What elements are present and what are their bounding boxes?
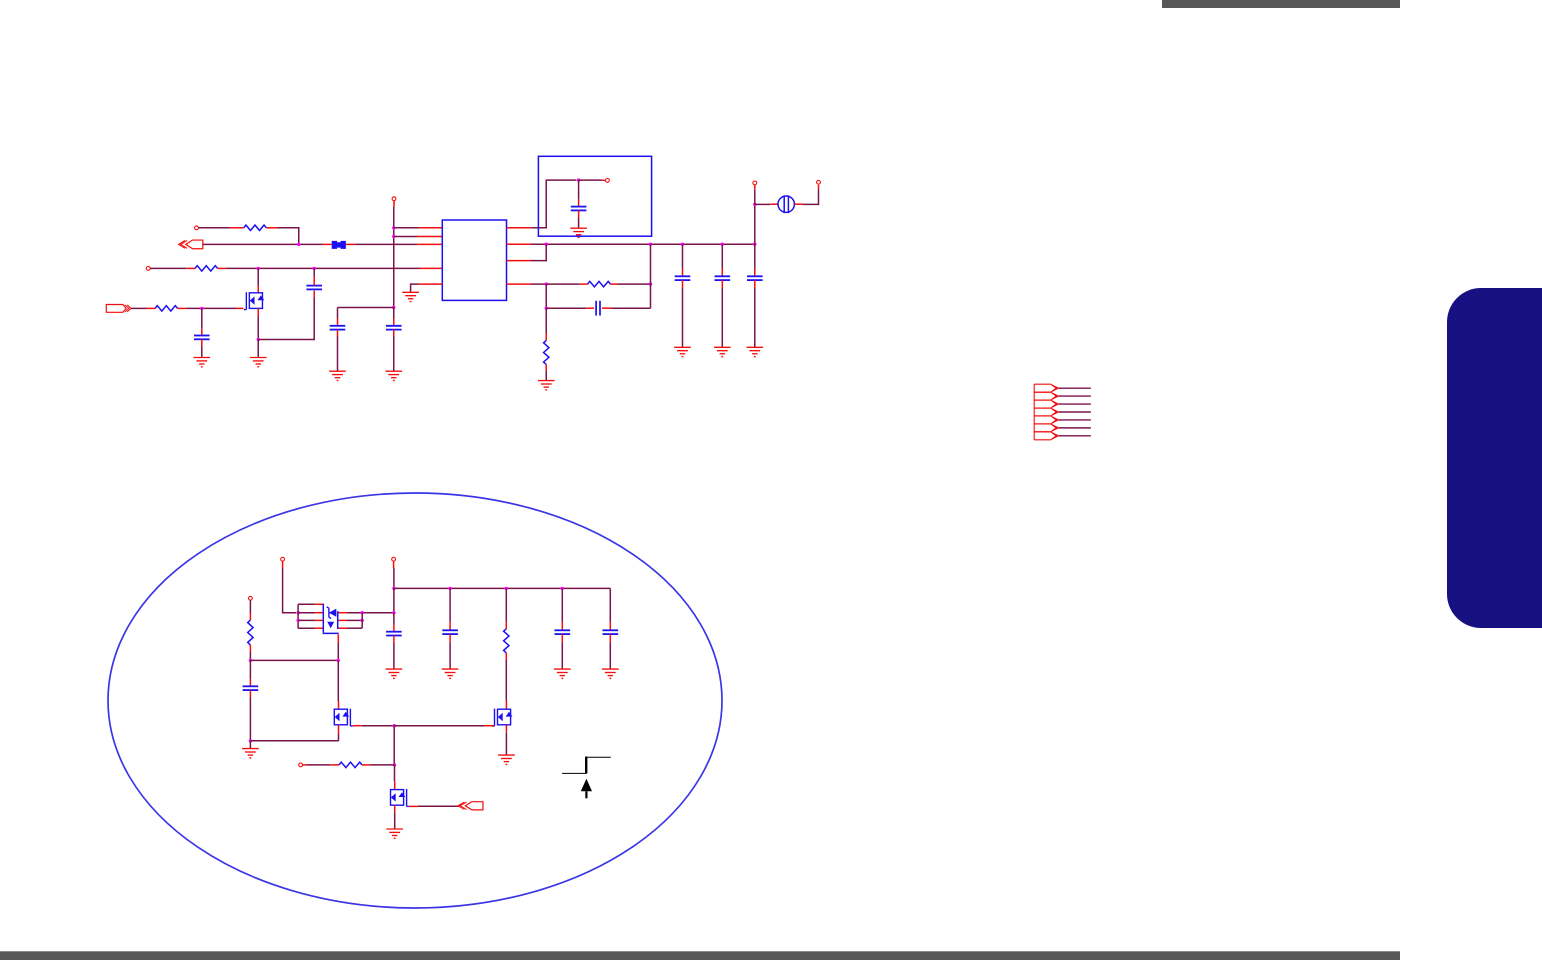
wire <box>1059 435 1091 437</box>
wire <box>393 561 395 568</box>
wire <box>258 298 314 340</box>
wire <box>505 725 507 733</box>
capacitor <box>555 630 571 634</box>
junction <box>361 611 364 614</box>
wire <box>795 203 804 205</box>
wire <box>203 243 323 245</box>
wire <box>355 243 417 245</box>
wire <box>362 725 394 727</box>
ground <box>386 829 403 838</box>
wire <box>249 741 251 749</box>
wire <box>754 204 756 244</box>
terminal <box>299 763 303 767</box>
wire <box>721 280 723 288</box>
wire <box>347 627 362 629</box>
ground <box>570 228 587 237</box>
wire <box>545 365 547 371</box>
junction <box>392 611 395 614</box>
transistor Q1 <box>244 292 263 309</box>
wire <box>337 337 339 372</box>
wire <box>449 588 451 622</box>
wire <box>418 805 460 807</box>
wire <box>266 227 277 229</box>
wire <box>449 634 451 642</box>
wire <box>297 604 299 628</box>
junction <box>721 243 724 246</box>
terminal <box>606 179 610 183</box>
wire <box>393 613 395 625</box>
wire <box>611 283 618 285</box>
ground <box>385 371 402 380</box>
fuse F1 <box>332 241 346 249</box>
wire <box>754 244 756 268</box>
wire <box>721 244 723 268</box>
wire <box>419 283 443 285</box>
wire <box>682 288 684 347</box>
wire <box>393 308 395 319</box>
ground <box>602 669 619 678</box>
wire <box>586 307 594 309</box>
wire <box>1059 419 1091 421</box>
junction <box>681 243 684 246</box>
ground <box>386 669 403 678</box>
junction <box>392 587 395 590</box>
diode D2 <box>329 609 336 617</box>
edge trigger symbol <box>562 756 611 774</box>
resistor R2 <box>195 266 218 271</box>
wire <box>249 698 251 741</box>
wire <box>721 269 723 277</box>
wire <box>561 642 563 669</box>
wire <box>278 228 299 245</box>
capacitor C7 <box>243 686 259 690</box>
junction <box>257 338 260 341</box>
wire <box>507 243 532 245</box>
capacitor C8 <box>386 632 402 636</box>
capacitor <box>675 276 691 280</box>
wire <box>611 307 650 309</box>
wire <box>393 330 395 337</box>
wire <box>393 337 395 372</box>
wire <box>298 619 315 621</box>
bottom footer bar <box>0 951 1400 960</box>
wire <box>249 679 251 686</box>
wire <box>218 267 227 269</box>
wire <box>721 288 723 347</box>
wire <box>1059 395 1091 397</box>
wire <box>303 764 307 766</box>
wire <box>315 612 323 614</box>
wire <box>754 280 756 288</box>
wire <box>409 805 418 807</box>
wire <box>394 805 396 812</box>
wire <box>250 659 338 661</box>
ground <box>674 347 691 356</box>
wire <box>754 288 756 347</box>
wire <box>578 200 580 207</box>
wire <box>507 227 532 229</box>
wire <box>449 642 451 669</box>
wire <box>362 764 370 766</box>
terminal <box>281 557 285 561</box>
wire <box>201 339 203 346</box>
regulator IC U1 <box>442 220 506 300</box>
capacitor C5 <box>571 207 587 211</box>
filter L1 <box>778 195 794 213</box>
wire <box>1059 403 1091 405</box>
capacitor C1 <box>194 336 210 340</box>
wire <box>1059 427 1091 429</box>
junction <box>249 739 252 742</box>
wire <box>507 260 532 262</box>
wire <box>609 634 611 642</box>
resistor R4 <box>588 281 611 286</box>
junction <box>393 724 396 727</box>
wire <box>257 340 259 358</box>
wire <box>505 660 507 701</box>
wire <box>393 319 395 326</box>
wire <box>347 612 394 614</box>
wire <box>546 283 580 285</box>
wire <box>313 268 315 276</box>
wire <box>393 726 395 765</box>
resistor R7 <box>504 629 509 653</box>
wire <box>531 283 546 285</box>
wire <box>545 284 547 308</box>
capacitor <box>715 276 731 280</box>
output port <box>106 305 126 313</box>
junction <box>448 587 451 590</box>
pack mosfet arrow <box>327 622 334 629</box>
wire <box>505 733 507 755</box>
junction <box>753 203 756 206</box>
wire <box>337 660 339 701</box>
wire <box>249 645 251 652</box>
wire <box>249 600 251 613</box>
wire <box>561 588 563 622</box>
wire <box>394 725 484 727</box>
input port <box>186 240 203 249</box>
wire <box>419 227 443 229</box>
wire <box>545 333 547 340</box>
wire <box>338 627 347 629</box>
wire <box>578 218 580 229</box>
wire <box>394 587 610 589</box>
wire <box>337 634 339 643</box>
wire <box>315 627 323 629</box>
wire <box>754 269 756 277</box>
wire <box>226 267 419 269</box>
wire <box>257 268 259 285</box>
wire <box>313 291 315 298</box>
wire <box>201 308 203 328</box>
junction <box>649 243 652 246</box>
junction <box>545 282 548 285</box>
wire <box>579 179 603 181</box>
wire <box>338 734 340 741</box>
wire <box>682 269 684 277</box>
junction <box>505 587 508 590</box>
wire <box>393 568 395 588</box>
junction <box>649 282 652 285</box>
ground <box>242 749 259 758</box>
wire <box>315 603 323 605</box>
ground <box>714 347 731 356</box>
wire <box>754 185 756 189</box>
wire <box>257 308 259 316</box>
wire <box>803 189 819 204</box>
wire <box>337 643 339 660</box>
wire <box>393 643 395 669</box>
wire <box>580 283 588 285</box>
wire <box>505 588 507 621</box>
wire <box>618 283 651 285</box>
wire <box>505 701 507 709</box>
wire <box>257 317 259 340</box>
transistor Q4 <box>391 789 410 806</box>
ground <box>329 371 346 380</box>
wire <box>338 307 394 309</box>
junction <box>361 619 364 622</box>
wire <box>682 280 684 288</box>
input port <box>465 802 483 810</box>
wire <box>754 189 756 204</box>
wire <box>236 307 244 309</box>
capacitor C4 <box>386 326 402 330</box>
junction <box>297 243 300 246</box>
wire <box>393 625 395 632</box>
junction <box>337 659 340 662</box>
junction <box>392 235 395 238</box>
junction <box>392 226 395 229</box>
wire <box>370 764 394 766</box>
ground <box>747 347 764 356</box>
resistor R3 <box>155 306 177 311</box>
terminal <box>753 181 757 185</box>
ground <box>250 358 267 367</box>
wire <box>146 307 155 309</box>
wire <box>338 701 340 709</box>
wire <box>411 284 419 292</box>
wire <box>505 653 507 660</box>
wire <box>249 690 251 697</box>
wire <box>420 267 443 269</box>
wire <box>545 308 547 333</box>
wire <box>298 603 315 605</box>
junction <box>577 178 580 181</box>
ground <box>442 669 459 678</box>
wire <box>186 267 195 269</box>
wire <box>199 227 231 229</box>
wire <box>178 307 187 309</box>
wire <box>307 764 331 766</box>
wire <box>394 781 396 789</box>
wire <box>505 622 507 629</box>
ground <box>554 669 571 678</box>
wire <box>546 307 586 309</box>
ground <box>538 381 555 390</box>
wire <box>609 622 611 630</box>
junction <box>561 587 564 590</box>
wire <box>131 307 146 309</box>
wire <box>315 619 323 621</box>
wire <box>353 725 362 727</box>
highlight ellipse <box>108 493 722 908</box>
wire <box>283 568 296 613</box>
wire <box>578 210 580 217</box>
wire <box>531 180 576 228</box>
terminal <box>195 226 199 230</box>
wire <box>257 286 259 293</box>
resistor R5 <box>544 340 549 364</box>
dual pack Q5 outline <box>323 604 339 634</box>
wire <box>602 307 611 309</box>
wire <box>545 371 547 381</box>
junction <box>545 307 548 310</box>
resistor R6 <box>248 620 253 645</box>
top header bar <box>1162 0 1400 8</box>
terminal <box>392 197 396 201</box>
wire <box>484 725 494 727</box>
wire <box>1059 411 1091 413</box>
wire <box>394 236 417 238</box>
wire <box>361 613 363 629</box>
resistor R1 <box>244 225 267 230</box>
wire <box>561 634 563 642</box>
ground <box>194 358 211 367</box>
junction <box>393 763 396 766</box>
ground <box>402 292 419 301</box>
wire <box>347 619 362 621</box>
wire <box>755 203 770 205</box>
ground <box>498 755 515 764</box>
wire <box>298 612 315 614</box>
capacitor C2 <box>306 286 322 290</box>
wire <box>393 636 395 644</box>
resistor R8 <box>339 762 362 767</box>
wire <box>1059 387 1091 389</box>
wire <box>230 227 244 229</box>
feedback box <box>538 156 651 236</box>
wire <box>150 267 186 269</box>
junction <box>257 267 260 270</box>
wire <box>417 236 442 238</box>
wire <box>449 622 451 630</box>
junction <box>200 307 203 310</box>
wire <box>338 612 347 614</box>
wire <box>609 642 611 669</box>
wire <box>394 227 419 229</box>
capacitor <box>747 276 763 280</box>
wire <box>507 283 532 285</box>
chapter side tab <box>1447 288 1542 628</box>
wire <box>338 725 340 734</box>
wire <box>393 207 395 308</box>
wire <box>393 588 395 612</box>
terminal <box>146 267 150 271</box>
wire <box>337 319 339 326</box>
terminal <box>817 180 821 184</box>
wire <box>561 622 563 630</box>
wire <box>394 765 396 781</box>
connector port stack J1 <box>1034 384 1058 440</box>
junction <box>296 611 299 614</box>
capacitor C6 <box>596 301 600 316</box>
wire <box>282 561 284 568</box>
capacitor <box>603 630 619 634</box>
wire <box>337 308 339 319</box>
wire <box>682 244 684 268</box>
wire <box>818 185 820 189</box>
junction <box>296 619 299 622</box>
junction <box>545 243 548 246</box>
wire <box>531 244 546 260</box>
wire <box>323 243 332 245</box>
junction <box>392 306 395 309</box>
wire <box>201 346 203 358</box>
wire <box>330 764 339 766</box>
wire <box>770 203 778 205</box>
wire <box>394 813 396 829</box>
wire <box>650 244 652 308</box>
wire <box>313 277 315 286</box>
wire <box>609 588 611 622</box>
junction <box>753 243 756 246</box>
wire <box>346 243 355 245</box>
junction <box>313 267 316 270</box>
junction <box>249 659 252 662</box>
capacitor C3 <box>330 326 346 330</box>
transistor Q3 <box>492 709 511 726</box>
wire <box>393 201 395 207</box>
terminal <box>392 557 396 561</box>
wire <box>531 243 755 245</box>
wire <box>338 619 347 621</box>
wire <box>187 307 236 309</box>
wire <box>249 613 251 620</box>
wire <box>250 740 338 742</box>
transistor Q2 <box>334 709 353 726</box>
wire <box>298 627 315 629</box>
wire <box>249 660 251 679</box>
wire <box>603 179 606 181</box>
wire <box>578 180 580 200</box>
capacitor <box>442 630 458 634</box>
wire <box>249 652 251 660</box>
terminal <box>249 596 253 600</box>
wire <box>337 330 339 337</box>
wire <box>201 329 203 336</box>
wire <box>417 243 442 245</box>
